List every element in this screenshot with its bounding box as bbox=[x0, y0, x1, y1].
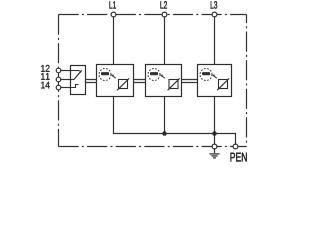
disconnector 3 square bbox=[219, 80, 228, 89]
changeover contact arm bbox=[74, 71, 82, 80]
junction dot at SPD3/bus bbox=[212, 131, 217, 136]
wire SPD1 drop and PE bus to PEN terminal bbox=[114, 97, 236, 145]
remote signalling contact box K1 bbox=[71, 66, 86, 95]
PEN terminal bbox=[233, 144, 238, 149]
terminal 12 bbox=[56, 68, 61, 73]
mechanical linkage relay to SPD1 (double line) bbox=[86, 80, 99, 83]
contact 12 line inside box bbox=[71, 70, 80, 72]
label 11 bbox=[41, 73, 49, 80]
disconnector 2 diagonal bbox=[168, 78, 180, 90]
disconnector 1 square bbox=[119, 80, 128, 89]
junction dot at SPD2/bus bbox=[162, 131, 167, 136]
label 14 bbox=[41, 82, 50, 89]
spark gap F1 electrode bar bbox=[101, 72, 109, 75]
earth terminal bbox=[212, 144, 217, 149]
disconnector 2 square bbox=[169, 80, 178, 89]
spark gap F2 electrode bar bbox=[150, 72, 158, 75]
contact 11 line inside box bbox=[71, 79, 74, 81]
ground symbol bbox=[214, 149, 216, 153]
wire terminal 12 to contact box bbox=[59, 70, 71, 72]
mechanical linkage SPD2 to SPD3 bbox=[178, 80, 199, 83]
spark gap F1 trigger arrow bbox=[113, 76, 116, 78]
wire terminal 11 to contact box bbox=[59, 79, 71, 81]
mechanical linkage SPD1 to SPD2 bbox=[128, 80, 148, 83]
label L3 bbox=[211, 1, 218, 8]
label 12 bbox=[41, 65, 49, 72]
spark gap F3 dashed circle bbox=[200, 69, 212, 81]
contact arm arrowhead bbox=[79, 70, 82, 73]
spark gap F2 dashed circle bbox=[148, 69, 160, 81]
label PEN bbox=[231, 153, 247, 162]
spark gap F2 trigger arrow bbox=[162, 76, 165, 78]
spark gap F3 electrode bar bbox=[202, 72, 210, 75]
enclosure top boundary bbox=[59, 14, 247, 16]
enclosure bottom boundary bbox=[59, 146, 247, 148]
label L1 bbox=[109, 1, 116, 8]
wire L1 feed bbox=[113, 17, 115, 65]
spark gap F1 dashed circle bbox=[99, 69, 111, 81]
terminal 11 bbox=[56, 77, 61, 82]
terminal 14 bbox=[56, 85, 61, 90]
wire SPD3 drop to earth terminal bbox=[214, 97, 216, 145]
wire L2 feed bbox=[164, 17, 166, 65]
mechanical linkage SPD3 to box edge bbox=[228, 80, 232, 83]
terminal L2 bbox=[162, 12, 167, 17]
disconnector 1 diagonal bbox=[117, 78, 129, 90]
SPD box 3 bbox=[198, 65, 232, 97]
enclosure left boundary bbox=[58, 15, 60, 147]
wire L3 feed bbox=[214, 17, 216, 65]
SPD box 2 bbox=[146, 65, 182, 97]
SPD box 1 bbox=[97, 65, 134, 97]
wire terminal 14 to contact box bbox=[59, 87, 71, 89]
enclosure right boundary bbox=[246, 15, 248, 147]
label L2 bbox=[160, 1, 167, 8]
contact 14 line with open contact hook bbox=[71, 85, 79, 88]
disconnector 3 diagonal bbox=[217, 78, 229, 90]
terminal L3 bbox=[212, 12, 217, 17]
wire SPD2 drop bbox=[164, 97, 166, 134]
terminal L1 bbox=[111, 12, 116, 17]
spark gap F3 trigger arrow bbox=[214, 76, 217, 78]
